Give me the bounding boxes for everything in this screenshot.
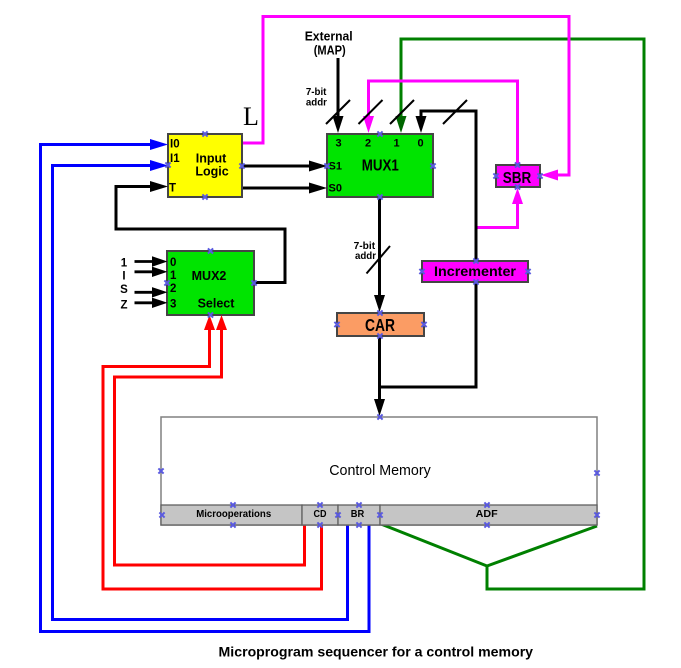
svg-text:Select: Select (198, 297, 236, 311)
handle SBR left (493, 173, 498, 178)
svg-text:CAR: CAR (365, 315, 395, 335)
svg-text:External: External (305, 28, 353, 43)
svg-text:ADF: ADF (476, 509, 498, 520)
svg-text:1: 1 (170, 270, 177, 282)
box Microoperations field (161, 505, 302, 525)
handle control-memory left (158, 468, 163, 473)
svg-text:Microprogram sequencer for a c: Microprogram sequencer for a control mem… (219, 644, 534, 659)
svg-text:1: 1 (121, 258, 128, 270)
handle CAR right (421, 322, 426, 327)
arrow black into MUX2 input 0 (152, 256, 168, 266)
handle incrementer bottom (473, 279, 478, 284)
svg-text:CD: CD (314, 509, 327, 520)
arrow magenta into SBR right (541, 170, 558, 181)
wire blue from BR to I1 (inner) (53, 166, 348, 620)
wire black CAR output to Control Memory (378, 336, 381, 403)
handle CAR bottom (377, 333, 382, 338)
handle microoperations bottom (230, 522, 235, 527)
handle SBR top (515, 162, 520, 167)
box ADF field (380, 505, 597, 525)
handle microoperations left (159, 512, 164, 517)
arrow black into T (150, 181, 168, 192)
wire red from CD to MUX2 select (outer) (103, 328, 322, 589)
handle control-memory right (594, 470, 599, 475)
handle CAR top (377, 310, 382, 315)
svg-text:7-bit: 7-bit (306, 87, 327, 98)
arrow blue into I1 (150, 160, 168, 171)
handle MUX1 bottom (377, 194, 382, 199)
arrow black into CAR (374, 295, 385, 312)
svg-text:Incrementer: Incrementer (434, 264, 517, 279)
box Input Logic (168, 134, 242, 197)
handle MUX2 bottom (208, 312, 213, 317)
wire magenta L: Input Logic to SBR (242, 17, 569, 176)
box MUX2 (167, 251, 254, 315)
svg-text:MUX2: MUX2 (192, 269, 227, 283)
box MUX1 (327, 134, 433, 197)
handle MUX1 left (324, 163, 329, 168)
arrow black into MUX2 input 2 (152, 287, 168, 297)
handle microoperations top (230, 502, 235, 507)
handle MUX1 right (430, 163, 435, 168)
svg-text:Input: Input (196, 151, 227, 165)
handle SBR bottom (515, 184, 520, 189)
wire magenta incrementer tap to SBR bottom (476, 201, 518, 228)
wire black MUX1 output to CAR (378, 197, 381, 299)
svg-text:I1: I1 (170, 153, 180, 165)
svg-text:Microoperations: Microoperations (196, 509, 271, 520)
handle ADF bottom (484, 522, 489, 527)
svg-text:(MAP): (MAP) (314, 42, 346, 57)
svg-text:L: L (243, 102, 259, 131)
svg-text:BR: BR (351, 509, 365, 520)
arrow black into MUX2 input 1 (152, 267, 168, 277)
arrow black into MUX1 input 0 (416, 116, 427, 133)
handle MUX1 top (377, 131, 382, 136)
svg-text:1: 1 (393, 138, 399, 150)
svg-text:I: I (122, 271, 125, 283)
svg-text:Control Memory: Control Memory (329, 462, 431, 479)
arrow red into MUX2 select right (216, 315, 227, 330)
handle ADF right (594, 512, 599, 517)
wire green ADF to MUX1 input 1 (381, 39, 644, 589)
svg-text:Logic: Logic (195, 165, 228, 179)
handle incrementer top (473, 258, 478, 263)
handle CD top (317, 502, 322, 507)
svg-text:0: 0 (170, 257, 176, 269)
handle CAR left (334, 322, 339, 327)
arrow black into Control Memory (374, 399, 385, 416)
handle input-logic left (165, 162, 170, 167)
svg-text:0: 0 (417, 138, 423, 150)
label External (MAP) (305, 28, 353, 57)
box Incrementer (422, 261, 528, 282)
arrow magenta into SBR bottom (512, 188, 523, 204)
slash on input2 bus (359, 100, 383, 124)
wire black S0 (242, 187, 313, 190)
svg-text:S: S (120, 284, 128, 296)
arrow black into S0 (309, 183, 327, 194)
handle MUX2 right (251, 280, 256, 285)
box CAR (337, 313, 424, 336)
arrow green into MUX1 input 1 (396, 116, 407, 133)
wire blue from BR to I0 (outer) (41, 145, 370, 632)
handle control-memory top (377, 414, 382, 419)
arrow magenta into MUX1 input 2 (363, 116, 374, 133)
slash on input1 bus (390, 100, 414, 124)
wire black S1 (242, 165, 313, 168)
MUX2 input stubs 1 I S Z (135, 262, 154, 303)
slash on input0 bus (443, 100, 467, 124)
svg-text:2: 2 (365, 138, 371, 150)
arrow black into MUX1 input 3 (333, 116, 344, 133)
svg-text:addr: addr (355, 251, 376, 262)
box CD field (302, 505, 338, 525)
wire black feedback through Incrementer to MUX1 input 0 (380, 111, 477, 387)
handle input-logic bottom (202, 194, 207, 199)
arrow black into S1 (309, 161, 327, 172)
box Control Memory (161, 417, 597, 525)
svg-text:S0: S0 (329, 182, 342, 194)
box BR field (338, 505, 380, 525)
arrow black into MUX2 input 3 (152, 298, 168, 308)
handle BR bottom (356, 522, 361, 527)
svg-text:I0: I0 (170, 138, 180, 150)
svg-text:SBR: SBR (503, 170, 532, 187)
handle CD bottom (317, 522, 322, 527)
label 7-bit addr mid (354, 241, 377, 262)
wire black External MAP to MUX1 input 3 (337, 58, 340, 120)
label 1 I S Z (120, 258, 128, 312)
handle incrementer right (525, 269, 530, 274)
wire magenta SBR output to MUX1 input 2 (369, 81, 518, 165)
wire red from CD to MUX2 select (inner) (115, 328, 305, 565)
svg-text:Z: Z (120, 300, 127, 312)
svg-text:2: 2 (170, 283, 176, 295)
svg-text:3: 3 (335, 138, 341, 150)
handle ADF top (484, 502, 489, 507)
arrow red into MUX2 select left (204, 315, 215, 330)
handle SBR right (537, 173, 542, 178)
wire black MUX2 output to T input (116, 187, 285, 283)
handle BR-ADF divider (377, 512, 382, 517)
slash on CAR bus (367, 246, 391, 274)
svg-text:T: T (169, 182, 176, 194)
handle incrementer left (419, 269, 424, 274)
svg-text:addr: addr (306, 98, 327, 109)
slash on MAP bus (326, 100, 350, 124)
handle MUX2 top (208, 248, 213, 253)
handle CD-BR divider (335, 512, 340, 517)
handle input-logic top (202, 131, 207, 136)
svg-text:MUX1: MUX1 (362, 157, 399, 174)
svg-text:3: 3 (170, 299, 176, 311)
handle MUX2 left (164, 280, 169, 285)
handle input-logic right (239, 163, 244, 168)
box SBR (496, 165, 540, 187)
svg-text:S1: S1 (329, 161, 342, 173)
label 7-bit addr top (306, 87, 327, 109)
arrow blue into I0 (150, 139, 168, 150)
handle BR top (356, 502, 361, 507)
